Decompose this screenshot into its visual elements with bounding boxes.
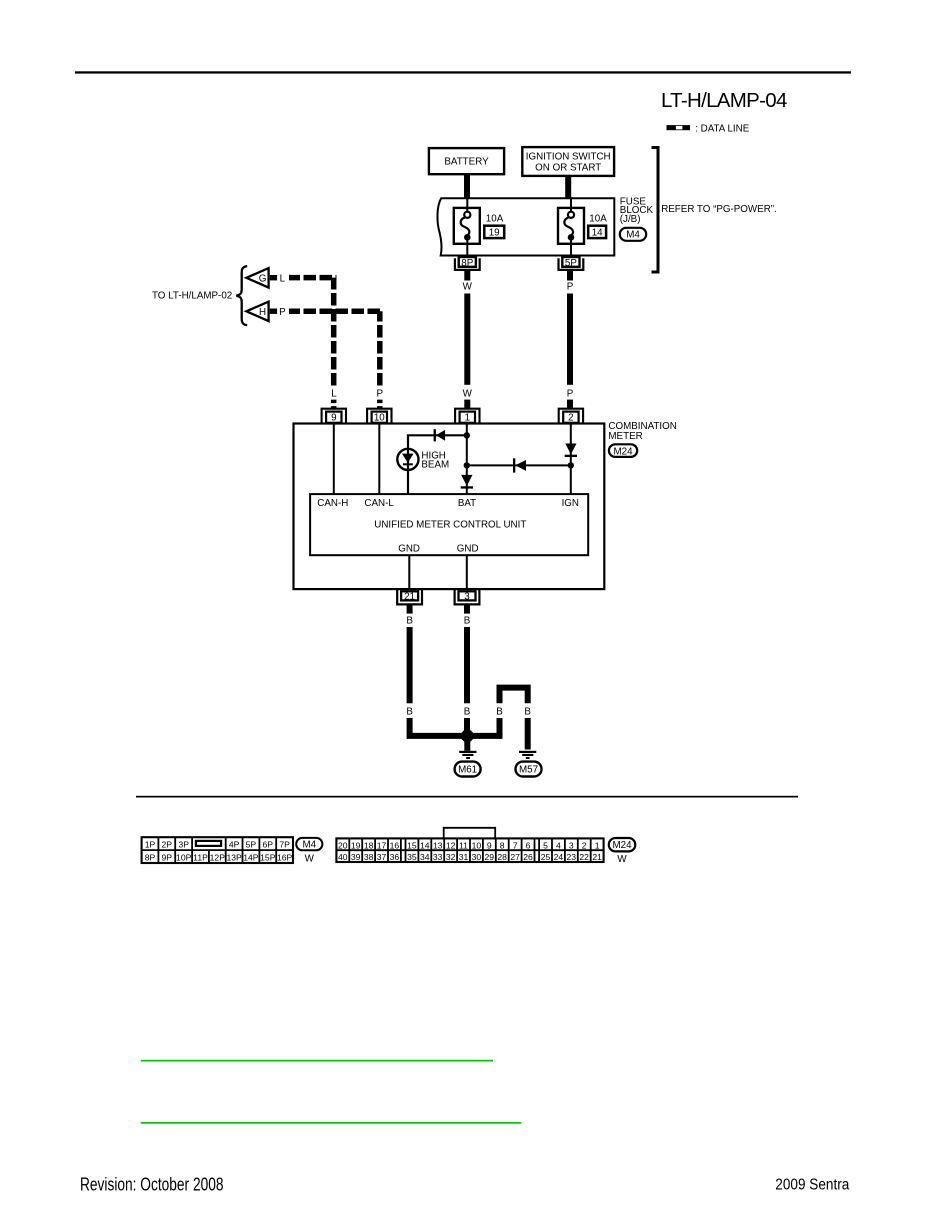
- fuse block label: [620, 196, 654, 225]
- M4 key slot: [196, 841, 221, 846]
- diode D4: [565, 444, 577, 458]
- svg-text:W: W: [305, 854, 315, 865]
- svg-text:27: 27: [510, 852, 520, 862]
- svg-text:40: 40: [338, 852, 348, 862]
- data line wire from H vertical to pin 10: [377, 311, 383, 385]
- svg-text:15P: 15P: [260, 852, 276, 862]
- svg-text:12P: 12P: [210, 852, 226, 862]
- svg-text:30: 30: [472, 852, 482, 862]
- junction node C: [568, 462, 574, 468]
- data line wire from G vertical to pin 9: [331, 278, 337, 386]
- svg-text:9P: 9P: [162, 852, 173, 862]
- svg-text:P: P: [567, 281, 574, 292]
- svg-text:3: 3: [464, 592, 470, 603]
- svg-text:10P: 10P: [176, 852, 192, 862]
- svg-text:10: 10: [374, 413, 385, 424]
- svg-text:4: 4: [556, 841, 561, 851]
- combination meter label: [608, 421, 676, 442]
- svg-text:REFER TO “PG-POWER”.: REFER TO “PG-POWER”.: [661, 204, 777, 215]
- svg-text:29: 29: [485, 852, 495, 862]
- svg-text:2P: 2P: [162, 840, 173, 850]
- svg-text:12: 12: [446, 841, 456, 851]
- ignition switch box: [522, 147, 614, 176]
- svg-text:10: 10: [472, 841, 482, 851]
- svg-text:10A: 10A: [486, 213, 504, 224]
- wire fuse 14 to pin 5P: [570, 240, 572, 255]
- svg-text:BAT: BAT: [458, 498, 476, 509]
- svg-text:L: L: [280, 273, 286, 284]
- pin 1: [455, 409, 479, 424]
- svg-text:M57: M57: [519, 765, 538, 776]
- svg-text:IGNITION SWITCH: IGNITION SWITCH: [526, 151, 611, 162]
- wire stub below pin 21: [407, 605, 413, 613]
- ground junction node: [461, 730, 474, 743]
- diode D1: [434, 429, 446, 441]
- svg-text:2: 2: [582, 841, 587, 851]
- svg-text:25: 25: [541, 852, 551, 862]
- M24 connector id oval: [609, 838, 636, 851]
- svg-text:38: 38: [364, 852, 374, 862]
- wire GND left to pin 21: [408, 555, 410, 589]
- svg-text:21: 21: [404, 592, 415, 603]
- wire B from pin 3: [464, 627, 470, 703]
- wire B from pin 21: [407, 627, 413, 703]
- svg-text:2009 Sentra: 2009 Sentra: [775, 1176, 849, 1193]
- svg-text:METER: METER: [608, 431, 642, 442]
- ground id M61 oval: [455, 762, 481, 777]
- svg-text:4P: 4P: [229, 840, 240, 850]
- separator rule: [136, 796, 798, 798]
- svg-text:24: 24: [554, 852, 564, 862]
- svg-text:15: 15: [407, 841, 417, 851]
- svg-text:(J/B): (J/B): [620, 214, 641, 225]
- svg-text:23: 23: [567, 852, 577, 862]
- svg-text:W: W: [617, 854, 627, 865]
- ground M61: [459, 751, 476, 759]
- svg-text:26: 26: [523, 852, 533, 862]
- svg-text:3P: 3P: [178, 840, 189, 850]
- svg-text:39: 39: [351, 852, 361, 862]
- high beam label: [421, 450, 449, 470]
- junction node A: [464, 432, 470, 438]
- wire P vertical: [567, 294, 573, 385]
- wire W vertical: [464, 294, 470, 385]
- svg-text:34: 34: [420, 852, 430, 862]
- svg-text:1P: 1P: [145, 840, 156, 850]
- svg-text:BEAM: BEAM: [421, 459, 449, 470]
- wire junction to M57 branch lower: [467, 718, 499, 736]
- svg-text:31: 31: [459, 852, 469, 862]
- brace: [236, 266, 247, 325]
- svg-text:B: B: [464, 616, 471, 627]
- wire stub above pin 2: [567, 400, 573, 409]
- svg-text:7P: 7P: [279, 840, 290, 850]
- svg-text:CAN-H: CAN-H: [317, 498, 348, 509]
- svg-text:22: 22: [579, 852, 589, 862]
- fuse 14 symbol: [564, 212, 574, 241]
- fuse 19 box: [454, 208, 480, 244]
- svg-text:M4: M4: [302, 840, 316, 851]
- green link line 2: [141, 1122, 522, 1124]
- wire junction through high beam to control unit: [408, 435, 467, 494]
- svg-text:5: 5: [543, 841, 548, 851]
- svg-text:P: P: [567, 389, 574, 400]
- data line stub above pin 10: [377, 400, 383, 409]
- ground id M57 oval: [516, 762, 542, 777]
- connector M4 pinout: [142, 837, 293, 863]
- svg-text:BATTERY: BATTERY: [444, 157, 489, 168]
- wire junction row: [467, 464, 571, 466]
- svg-text:G: G: [259, 273, 267, 284]
- svg-text:M24: M24: [612, 840, 632, 851]
- svg-text:36: 36: [390, 852, 400, 862]
- svg-text:GND: GND: [398, 543, 420, 554]
- pin 9: [322, 409, 346, 424]
- svg-text:32: 32: [446, 852, 456, 862]
- data line stub above pin 9: [331, 400, 337, 409]
- svg-text:21: 21: [592, 852, 602, 862]
- svg-text:11: 11: [459, 841, 468, 851]
- svg-text:16P: 16P: [277, 852, 293, 862]
- svg-text:B: B: [406, 616, 413, 627]
- svg-text:7: 7: [513, 841, 518, 851]
- svg-text:8P: 8P: [461, 258, 473, 269]
- connector M24 pinout: [336, 828, 603, 862]
- svg-text:8P: 8P: [145, 852, 156, 862]
- fuse block J/B outline: [437, 198, 614, 255]
- svg-text:1: 1: [595, 841, 600, 851]
- svg-text:17: 17: [377, 841, 387, 851]
- svg-text:L: L: [331, 389, 337, 400]
- wire B from pin 21 lower: [410, 718, 468, 736]
- wire stub below pin 3: [464, 605, 470, 613]
- svg-text:14: 14: [592, 228, 603, 239]
- M4 connector id oval: [296, 838, 322, 851]
- svg-text:M4: M4: [626, 230, 640, 241]
- fuse 14 box: [558, 208, 584, 244]
- pin 5P of fuse block: [559, 257, 584, 270]
- combination meter box: [294, 424, 605, 590]
- svg-text:2: 2: [568, 413, 573, 424]
- unified meter control unit box: [310, 494, 588, 555]
- wire battery to fuse block: [464, 174, 470, 199]
- M24 top latch: [444, 828, 496, 839]
- svg-text:M61: M61: [458, 765, 477, 776]
- connector id M4 oval: [620, 228, 646, 241]
- svg-text:6: 6: [526, 841, 531, 851]
- pin 2: [559, 409, 583, 424]
- svg-text:18: 18: [364, 841, 374, 851]
- svg-text:14: 14: [420, 841, 430, 851]
- svg-text:M24: M24: [613, 446, 633, 457]
- svg-text:3: 3: [569, 841, 574, 851]
- wire ignition switch to fuse block: [565, 175, 571, 198]
- connector id M24 oval: [609, 444, 637, 457]
- fuse number 14 box: [588, 226, 606, 238]
- svg-text:33: 33: [433, 852, 443, 862]
- wire stub above pin 1: [464, 400, 470, 409]
- data line wire from G horizontal: [289, 275, 336, 281]
- wire into fuse 19: [466, 198, 468, 212]
- svg-text:UNIFIED METER CONTROL UNIT: UNIFIED METER CONTROL UNIT: [374, 519, 526, 530]
- svg-text:6P: 6P: [263, 840, 274, 850]
- diode D3: [513, 458, 526, 472]
- wire B from pin 3 lower: [464, 718, 470, 736]
- fuse number 19 box: [484, 226, 504, 238]
- right bracket: [652, 146, 660, 274]
- svg-text:CAN-L: CAN-L: [364, 498, 394, 509]
- green link line 1: [141, 1060, 493, 1062]
- svg-text:13P: 13P: [226, 852, 242, 862]
- wire pin 1 to BAT: [466, 423, 468, 494]
- svg-text:B: B: [406, 707, 413, 718]
- battery box: [429, 148, 504, 174]
- svg-text:13: 13: [433, 841, 443, 851]
- svg-text:10A: 10A: [589, 213, 607, 224]
- svg-text:14P: 14P: [243, 852, 259, 862]
- wire junction to ground M61: [464, 736, 470, 751]
- wire GND right to pin 3: [466, 555, 468, 589]
- junction node B: [464, 462, 470, 468]
- data line legend swatch: [667, 125, 691, 130]
- wire stub below 5P: [567, 271, 573, 281]
- svg-text:19: 19: [489, 228, 500, 239]
- wire into fuse 14: [570, 198, 572, 212]
- svg-text:B: B: [496, 707, 503, 718]
- svg-text:1: 1: [465, 413, 470, 424]
- svg-text:P: P: [377, 389, 384, 400]
- wire stub below 8P: [464, 271, 470, 281]
- svg-text:TO LT-H/LAMP-02: TO LT-H/LAMP-02: [152, 290, 232, 301]
- svg-text:8: 8: [500, 841, 505, 851]
- svg-text:37: 37: [377, 852, 387, 862]
- svg-text:W: W: [463, 389, 473, 400]
- svg-text:9: 9: [331, 413, 336, 424]
- wire pin 9 to CAN-H: [333, 425, 335, 495]
- svg-text:ON OR START: ON OR START: [535, 163, 601, 174]
- svg-text:28: 28: [497, 852, 507, 862]
- svg-text:16: 16: [390, 841, 400, 851]
- arrow G to LT-H/LAMP-02: [246, 268, 277, 288]
- svg-text:20: 20: [338, 841, 348, 851]
- wire M57 branch lower: [525, 718, 531, 750]
- high beam indicator lamp: [397, 449, 418, 470]
- svg-text:B: B: [524, 707, 531, 718]
- svg-text:LT-H/LAMP-04: LT-H/LAMP-04: [661, 89, 787, 112]
- wire pin 2 to IGN: [570, 423, 572, 494]
- fuse 19 symbol: [461, 212, 471, 241]
- svg-text:5P: 5P: [565, 258, 577, 269]
- svg-text:5P: 5P: [246, 840, 257, 850]
- svg-text:GND: GND: [457, 543, 479, 554]
- top rule: [75, 71, 851, 73]
- svg-text:9: 9: [487, 841, 492, 851]
- svg-text:: DATA LINE: : DATA LINE: [695, 123, 750, 134]
- pin 3: [455, 589, 480, 604]
- ground M57: [519, 751, 536, 759]
- svg-text:H: H: [259, 307, 266, 318]
- wire fuse 19 to pin 8P: [466, 240, 468, 255]
- svg-text:B: B: [464, 707, 471, 718]
- pin 21: [397, 589, 422, 604]
- wire pin 10 to CAN-L: [378, 425, 380, 495]
- svg-text:W: W: [463, 281, 473, 292]
- pin 10: [367, 409, 391, 424]
- diode D2: [461, 475, 473, 489]
- svg-text:P: P: [279, 307, 286, 318]
- wire M57 branch bridge: [500, 688, 528, 704]
- arrow H to LT-H/LAMP-02: [246, 302, 277, 322]
- svg-text:IGN: IGN: [562, 498, 579, 509]
- svg-text:19: 19: [351, 841, 361, 851]
- svg-text:Revision: October 2008: Revision: October 2008: [80, 1174, 224, 1194]
- svg-text:35: 35: [407, 852, 417, 862]
- svg-text:11P: 11P: [193, 852, 208, 862]
- data line wire from H horizontal: [289, 309, 383, 315]
- pin 8P of fuse block: [455, 257, 480, 270]
